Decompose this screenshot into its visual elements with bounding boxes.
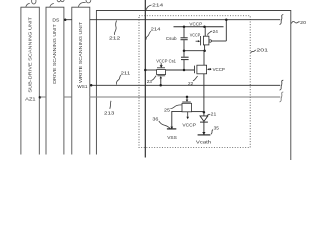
WS1 line (write scan row) — [91, 84, 280, 86]
svg-text:VSS: VSS — [167, 135, 177, 141]
pixel array outer box 20 — [96, 11, 290, 161]
VSS terminal — [170, 127, 173, 129]
label 24 — [208, 31, 212, 35]
svg-text:24: 24 — [213, 29, 219, 35]
Cs1/gate line dot — [183, 69, 186, 72]
label 211 — [116, 75, 121, 85]
DS line (drive scan row) — [65, 19, 280, 21]
WS1/T23 gate dot — [159, 84, 162, 87]
label leader above write box — [78, 2, 85, 7]
T25 body annotation VCCP — [187, 112, 189, 117]
drive scanning unit box — [46, 7, 64, 154]
svg-text:Csub: Csub — [166, 36, 177, 42]
label 22 — [193, 76, 198, 81]
switch transistor T25 — [186, 96, 189, 99]
DS line end break — [280, 15, 284, 25]
capacitor Csub — [183, 27, 185, 38]
transistor T23 — [145, 69, 156, 71]
svg-text:211: 211 — [121, 71, 131, 77]
label 214 inner — [146, 31, 151, 39]
write scanning unit box — [72, 7, 90, 154]
svg-text:VCCP: VCCP — [190, 32, 201, 37]
svg-text:214: 214 — [151, 27, 161, 33]
svg-text:212: 212 — [109, 36, 121, 42]
node dot rail/Csub — [183, 26, 186, 29]
DS/T24 gate dot — [225, 18, 228, 21]
dashed pixel cell box 201 — [139, 16, 250, 148]
svg-text:VCCP: VCCP — [213, 67, 225, 72]
svg-text:21: 21 — [211, 111, 217, 117]
svg-text:AZ1: AZ1 — [25, 97, 36, 103]
Vcath terminal arrow — [202, 132, 205, 135]
AZ1 line (sub-drive scan row) — [40, 96, 280, 98]
T22 body annotation VCCP — [207, 68, 209, 70]
node A wire (Csub bottom to T24 drain) — [184, 50, 205, 52]
label leader above drive box — [50, 3, 54, 7]
label 20 — [291, 21, 299, 23]
transistor T24 — [200, 36, 202, 45]
svg-text:36: 36 — [152, 117, 158, 123]
label 214 top — [146, 5, 151, 10]
214/T23 source dot — [144, 69, 147, 72]
svg-text:VCCP: VCCP — [182, 123, 196, 128]
label 25 — [170, 105, 181, 109]
svg-text:213: 213 — [104, 111, 115, 117]
svg-text:25: 25 — [164, 108, 170, 114]
VCCP power rail — [174, 26, 224, 28]
svg-text:Cs1: Cs1 — [169, 59, 177, 65]
label 35 — [211, 130, 213, 135]
svg-text:VCCP: VCCP — [189, 21, 202, 27]
svg-text:214: 214 — [152, 2, 163, 8]
label 201 — [251, 50, 256, 53]
label 213 — [110, 101, 111, 109]
label leader above sub-drive box — [26, 3, 30, 7]
svg-text:WS1: WS1 — [77, 84, 87, 90]
label 36 — [159, 121, 171, 129]
svg-text:WRITE SCANNING UNIT: WRITE SCANNING UNIT — [78, 22, 83, 83]
WS1 node dot — [90, 84, 93, 87]
svg-text:20: 20 — [300, 20, 306, 26]
label 212 — [114, 21, 116, 35]
WS1 line end break — [280, 80, 284, 90]
svg-text:SUB-DRIVE SCANNING UNIT: SUB-DRIVE SCANNING UNIT — [28, 17, 33, 93]
svg-text:22: 22 — [188, 81, 194, 87]
signal line 214 (vertical) — [144, 0, 146, 158]
label 23 — [152, 76, 157, 81]
svg-text:201: 201 — [256, 47, 268, 53]
sub-drive scanning unit box — [21, 7, 39, 154]
AZ1 line end break — [280, 92, 284, 102]
svg-text:DRIVE SCANNING UNIT: DRIVE SCANNING UNIT — [52, 24, 57, 84]
label 21 — [206, 114, 210, 116]
drive transistor T22 — [194, 66, 196, 74]
svg-text:23: 23 — [147, 79, 153, 85]
node dot rail/T24 — [203, 26, 206, 29]
capacitor Cs1 — [183, 51, 185, 57]
EL diode 21 — [203, 112, 205, 116]
svg-text:DS: DS — [52, 18, 59, 24]
svg-text:VCCP: VCCP — [156, 59, 167, 64]
AZ1 node dot — [39, 96, 42, 99]
DS node dot — [64, 18, 67, 21]
svg-text:Vcath: Vcath — [196, 140, 212, 146]
svg-text:35: 35 — [214, 126, 220, 132]
